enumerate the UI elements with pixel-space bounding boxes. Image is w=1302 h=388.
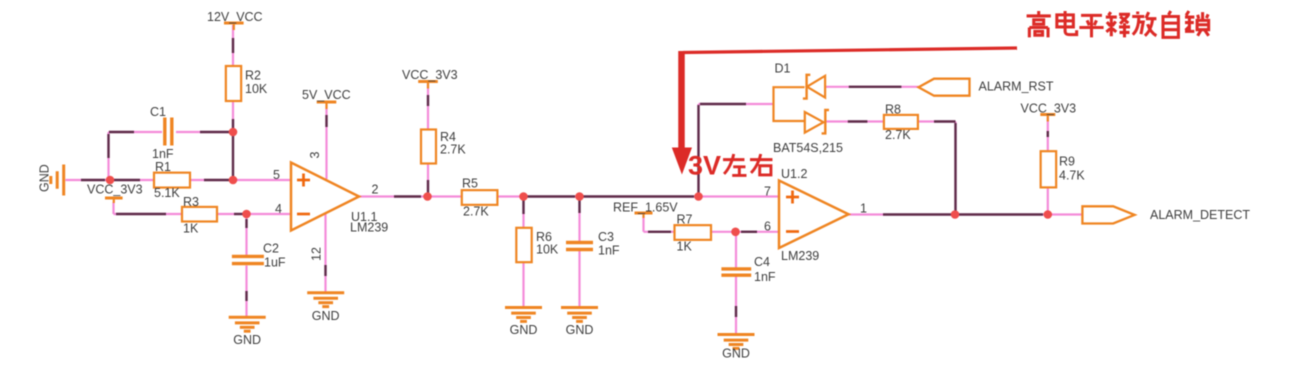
svg-text:5.1K: 5.1K bbox=[154, 186, 180, 200]
svg-text:10K: 10K bbox=[245, 82, 268, 96]
svg-text:1uF: 1uF bbox=[264, 256, 286, 270]
svg-text:12: 12 bbox=[310, 247, 324, 261]
svg-text:R5: R5 bbox=[462, 177, 478, 191]
svg-text:2.7K: 2.7K bbox=[885, 128, 911, 142]
svg-text:LM239: LM239 bbox=[350, 221, 388, 235]
svg-text:10K: 10K bbox=[536, 243, 559, 257]
svg-text:GND: GND bbox=[510, 323, 538, 337]
svg-text:GND: GND bbox=[722, 347, 750, 361]
svg-text:REF_1.65V: REF_1.65V bbox=[613, 201, 678, 215]
svg-text:4.7K: 4.7K bbox=[1059, 169, 1085, 183]
svg-text:ALARM_RST: ALARM_RST bbox=[979, 79, 1054, 93]
svg-text:D1: D1 bbox=[775, 62, 791, 76]
svg-text:R2: R2 bbox=[245, 69, 261, 83]
svg-text:BAT54S,215: BAT54S,215 bbox=[773, 141, 843, 155]
svg-text:5: 5 bbox=[273, 168, 280, 182]
svg-text:12V_VCC: 12V_VCC bbox=[207, 10, 263, 24]
svg-text:2: 2 bbox=[372, 183, 379, 197]
svg-text:5V_VCC: 5V_VCC bbox=[302, 88, 351, 102]
svg-text:3: 3 bbox=[308, 152, 322, 159]
svg-text:1K: 1K bbox=[677, 240, 693, 254]
svg-text:1nF: 1nF bbox=[754, 270, 776, 284]
svg-text:GND: GND bbox=[38, 164, 52, 192]
svg-text:C2: C2 bbox=[263, 242, 279, 256]
svg-text:1K: 1K bbox=[183, 222, 199, 236]
svg-text:R8: R8 bbox=[885, 103, 901, 117]
svg-text:VCC_3V3: VCC_3V3 bbox=[87, 183, 143, 197]
svg-text:R9: R9 bbox=[1059, 155, 1075, 169]
svg-text:6: 6 bbox=[764, 219, 771, 233]
svg-text:GND: GND bbox=[233, 333, 261, 347]
svg-text:ALARM_DETECT: ALARM_DETECT bbox=[1150, 208, 1250, 222]
svg-text:3V: 3V bbox=[688, 151, 721, 181]
svg-text:1nF: 1nF bbox=[598, 244, 620, 258]
svg-text:LM239: LM239 bbox=[781, 249, 819, 263]
svg-text:2.7K: 2.7K bbox=[440, 143, 466, 157]
svg-text:R3: R3 bbox=[183, 195, 199, 209]
svg-text:VCC_3V3: VCC_3V3 bbox=[1021, 102, 1077, 116]
svg-text:C3: C3 bbox=[598, 230, 614, 244]
svg-text:2.7K: 2.7K bbox=[463, 205, 489, 219]
svg-text:C1: C1 bbox=[150, 105, 166, 119]
svg-text:R1: R1 bbox=[155, 160, 171, 174]
svg-text:VCC_3V3: VCC_3V3 bbox=[402, 68, 458, 82]
svg-text:U1.2: U1.2 bbox=[781, 167, 807, 181]
svg-text:1nF: 1nF bbox=[152, 147, 174, 161]
svg-text:C4: C4 bbox=[754, 255, 770, 269]
svg-text:GND: GND bbox=[566, 323, 594, 337]
svg-text:7: 7 bbox=[764, 184, 771, 198]
svg-text:R7: R7 bbox=[677, 213, 693, 227]
svg-text:1: 1 bbox=[860, 202, 867, 216]
svg-text:4: 4 bbox=[275, 202, 282, 216]
svg-text:GND: GND bbox=[312, 309, 340, 323]
